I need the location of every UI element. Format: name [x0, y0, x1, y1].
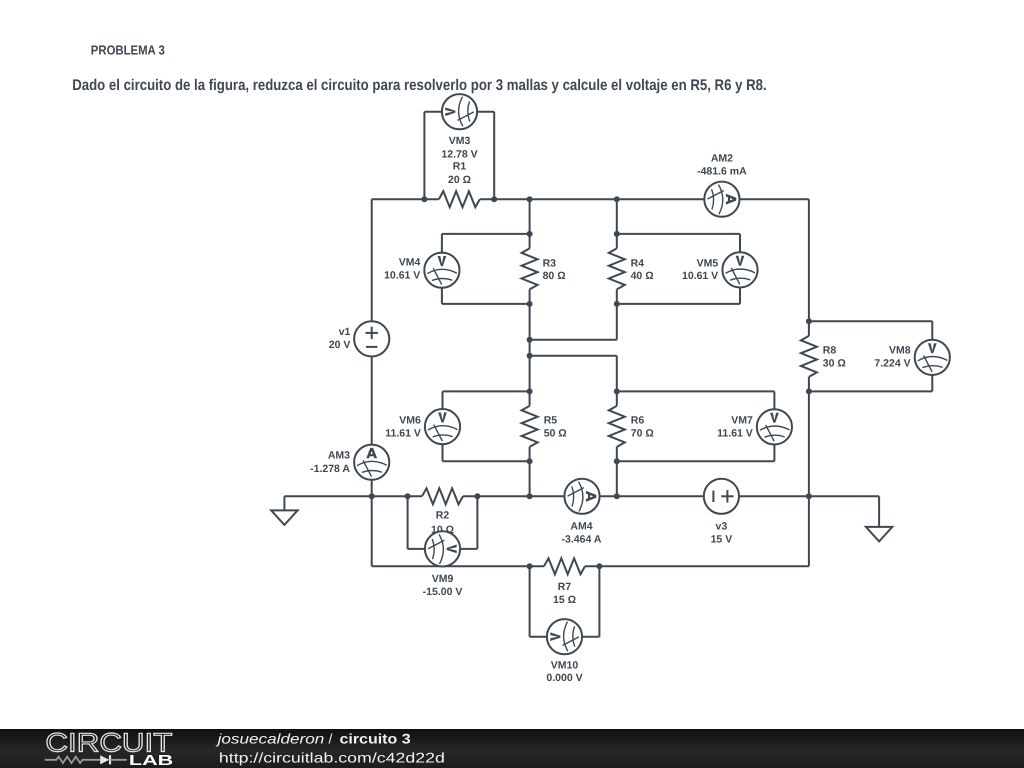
svg-text:50 Ω: 50 Ω [544, 428, 567, 440]
resistor R2 10 ohm [422, 488, 463, 536]
svg-text:AM2: AM2 [711, 153, 733, 165]
junction R6 top node [614, 388, 620, 394]
svg-text:11.61 V: 11.61 V [717, 427, 753, 439]
resistor R5 50 ohm [522, 406, 567, 447]
svg-text:R8: R8 [823, 344, 837, 356]
svg-text:40 Ω: 40 Ω [631, 270, 654, 282]
svg-text:VM4: VM4 [399, 257, 421, 269]
wire VM5 loop [617, 234, 740, 304]
svg-text:12.78 V: 12.78 V [441, 148, 477, 160]
svg-text:Dado el circuito de la figura,: Dado el circuito de la figura, reduzca e… [72, 77, 767, 94]
svg-text:20 Ω: 20 Ω [448, 174, 471, 186]
junction R1 left node [421, 196, 427, 202]
junction middle link 1 [527, 337, 533, 343]
svg-text:/: / [329, 731, 333, 747]
svg-text:VM9: VM9 [432, 573, 454, 585]
logo resistor-diode glyph [45, 755, 127, 764]
junction R5 bottom node [527, 458, 533, 464]
svg-text:R2: R2 [436, 510, 450, 522]
svg-text:70 Ω: 70 Ω [631, 428, 654, 440]
junction R7 left node [527, 563, 533, 569]
svg-text:80 Ω: 80 Ω [543, 270, 566, 282]
resistor R7 15 ohm [544, 558, 585, 606]
voltmeter VM3 12.78V [441, 94, 477, 160]
svg-text:v1: v1 [339, 326, 351, 338]
wire R7 rail [372, 565, 544, 567]
junction R3 bottom node [527, 301, 533, 307]
svg-text:R4: R4 [631, 257, 645, 269]
ammeter AM2 -481.6mA [697, 153, 747, 217]
resistor R3 80 ohm [522, 248, 566, 289]
resistor R8 30 ohm [801, 336, 846, 377]
svg-text:15 Ω: 15 Ω [553, 594, 576, 606]
wire bottom main rail [284, 495, 422, 497]
svg-text:VM6: VM6 [399, 414, 421, 426]
wire R3 column [529, 199, 531, 496]
svg-text:R3: R3 [543, 257, 557, 269]
junction middle link 2 [527, 353, 533, 359]
ground left [283, 496, 285, 510]
svg-text:AM4: AM4 [570, 520, 592, 532]
svg-text:R7: R7 [558, 581, 572, 593]
junction AM3 bottom rail [369, 493, 375, 499]
voltmeter VM5 10.61V [682, 252, 758, 287]
resistor R1 20 ohm [439, 160, 480, 207]
wire VM10 loop [530, 566, 600, 636]
svg-text:VM5: VM5 [697, 257, 719, 269]
svg-text:R5: R5 [544, 415, 558, 427]
svg-text:LAB: LAB [129, 753, 173, 768]
svg-text:0.000 V: 0.000 V [546, 672, 582, 684]
svg-text:VM8: VM8 [889, 344, 911, 356]
ammeter AM4 -3.464A [562, 479, 602, 546]
junction R3 top rail [527, 196, 533, 202]
wire link R4-bottom to node column [530, 339, 617, 341]
wire left column v1-AM3 [371, 199, 373, 496]
wire VM4 loop [442, 234, 530, 304]
junction R4 bottom node [614, 301, 620, 307]
wire R6 column bottom [616, 447, 618, 496]
junction R6 bottom node [614, 458, 620, 464]
voltage source v3 15V [704, 479, 739, 546]
voltmeter VM10 0.000V [546, 619, 582, 684]
svg-text:VM7: VM7 [731, 414, 753, 426]
svg-text:circuito 3: circuito 3 [340, 731, 411, 747]
svg-text:30 Ω: 30 Ω [823, 357, 846, 369]
svg-text:PROBLEMA 3: PROBLEMA 3 [91, 43, 165, 58]
svg-text:v3: v3 [716, 521, 728, 533]
junction R2 left node [405, 493, 411, 499]
svg-text:VM10: VM10 [551, 660, 579, 672]
svg-text:-1.278 A: -1.278 A [310, 463, 350, 475]
wire VM6 loop [443, 391, 530, 461]
junction R7 right node [596, 563, 602, 569]
junction R4 top rail [614, 196, 620, 202]
wire AM3 to R7 rail [371, 496, 373, 566]
wire VM9 loop [408, 496, 478, 549]
svg-text:josuecalderon: josuecalderon [215, 731, 324, 747]
voltmeter VM4 10.61V [384, 253, 459, 288]
ground right [878, 496, 880, 527]
ammeter AM3 -1.278A [310, 445, 389, 480]
junction R5 top node [527, 388, 533, 394]
svg-text:-481.6 mA: -481.6 mA [697, 166, 747, 178]
wire top rail [372, 198, 439, 200]
wire VM7 loop [617, 391, 775, 461]
wire right column R8 [808, 199, 810, 566]
junction R8 bottom node [806, 388, 812, 394]
voltage source v1 20V [329, 321, 390, 356]
svg-text:R1: R1 [453, 160, 467, 172]
footer bar [0, 729, 1024, 768]
svg-text:VM3: VM3 [449, 135, 471, 147]
junction R6 column bottom rail [614, 493, 620, 499]
svg-text:15 V: 15 V [711, 534, 733, 546]
svg-text:20 V: 20 V [329, 339, 351, 351]
junction R5 column bottom rail [527, 493, 533, 499]
junction right column bottom rail [806, 493, 812, 499]
footer author line [215, 731, 411, 747]
voltmeter VM6 11.61V [385, 409, 460, 444]
svg-text:AM3: AM3 [328, 450, 350, 462]
svg-text:-3.464 A: -3.464 A [562, 534, 602, 546]
junction R4 top node [614, 231, 620, 237]
junction R1 right node [491, 196, 497, 202]
wire VM8 loop [809, 321, 932, 391]
wire R4 column [616, 199, 618, 340]
svg-text:http://circuitlab.com/c42d22d: http://circuitlab.com/c42d22d [219, 749, 445, 765]
voltmeter VM7 11.61V [717, 409, 792, 444]
resistor R6 70 ohm [609, 406, 654, 447]
junction R8 top node [806, 318, 812, 324]
junction R3 top node [527, 231, 533, 237]
svg-text:11.61 V: 11.61 V [385, 427, 421, 439]
voltmeter VM9 -15.00V [423, 531, 463, 598]
resistor R4 40 ohm [609, 248, 654, 289]
svg-text:R6: R6 [631, 415, 645, 427]
svg-text:10.61 V: 10.61 V [384, 270, 420, 282]
svg-text:7.224 V: 7.224 V [874, 357, 910, 369]
svg-text:10.61 V: 10.61 V [682, 270, 718, 282]
wire link node column to R6-top [530, 356, 617, 406]
voltmeter VM8 7.224V [874, 340, 950, 375]
svg-text:-15.00 V: -15.00 V [423, 586, 463, 598]
wire VM3 loop [424, 112, 494, 200]
junction R2 right node [474, 493, 480, 499]
